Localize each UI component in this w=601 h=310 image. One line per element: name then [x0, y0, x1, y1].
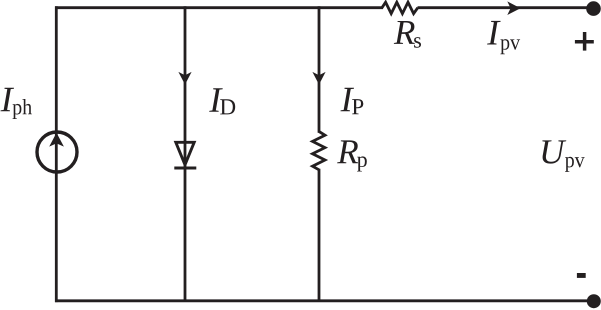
arrowhead I_P current direction	[312, 72, 325, 85]
minus polarity symbol	[577, 273, 586, 278]
resistor R_s zigzag	[382, 2, 418, 13]
wire left branch	[55, 6, 58, 302]
wire R_p branch upper	[318, 6, 321, 133]
diode D cathode bar	[174, 167, 196, 170]
current source I_ph circle	[37, 132, 77, 172]
label R_s	[394, 21, 415, 44]
label R_p	[337, 140, 358, 163]
arrowhead I_D current direction	[178, 72, 191, 85]
resistor R_p zigzag	[313, 132, 326, 170]
node terminal dot bottom (-)	[587, 294, 601, 308]
plus polarity symbol	[575, 32, 594, 51]
label I_D	[209, 88, 223, 112]
current source arrowhead	[49, 133, 64, 147]
label I_ph	[1, 88, 15, 112]
wire R_p branch lower	[318, 169, 321, 301]
wire top rail right segment	[418, 6, 594, 9]
wire diode branch	[184, 6, 187, 301]
wire top rail left segment	[55, 6, 383, 9]
wire bottom rail	[55, 299, 594, 302]
label U_pv	[542, 140, 566, 163]
node terminal dot top (+)	[586, 1, 601, 16]
label I_P	[341, 88, 355, 112]
arrowhead I_pv current direction	[507, 1, 520, 15]
diode D triangle	[176, 142, 194, 165]
label I_pv	[487, 21, 501, 45]
